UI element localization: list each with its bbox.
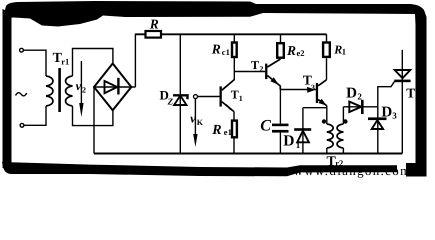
wire from top terminal — [24, 50, 46, 76]
wire T2 emitter to T3 base — [280, 89, 316, 91]
svg-text:D: D — [381, 104, 392, 120]
zener DZ symbol — [173, 95, 188, 99]
svg-text:R: R — [211, 42, 221, 57]
terminal vK — [194, 95, 198, 99]
frame border right — [416, 18, 427, 163]
frame border right bottom blob — [406, 163, 427, 177]
svg-text:e1: e1 — [224, 127, 232, 137]
svg-text:K: K — [197, 118, 204, 127]
thyristor T4 gate — [378, 81, 395, 107]
transistor T3 — [316, 83, 318, 103]
wire Re2 to rail — [280, 34, 282, 43]
svg-text:r1: r1 — [61, 56, 69, 66]
capacitor C — [279, 90, 281, 124]
svg-text:D: D — [283, 133, 294, 150]
transistor T1 — [220, 86, 222, 106]
frame border bottom — [2, 162, 397, 176]
wire bridge DC+ riser — [134, 34, 136, 87]
transformer Tr2 right winding — [337, 124, 343, 148]
svg-text:R: R — [211, 123, 221, 138]
wire from bottom terminal — [24, 106, 46, 125]
bridge rectifier diamond — [94, 64, 131, 111]
svg-text:2: 2 — [82, 85, 86, 94]
wire T1 emitter / Re1 — [233, 112, 235, 154]
wire bridge center line — [94, 86, 135, 88]
dot Tr2 left — [322, 119, 326, 123]
diode D2 — [349, 102, 361, 112]
wire T2 base — [234, 71, 265, 73]
transformer Tr1 primary winding — [46, 76, 53, 106]
wire top rail — [135, 33, 327, 35]
terminal input bottom — [20, 123, 24, 127]
svg-text:v: v — [190, 111, 196, 125]
wire T1 base — [198, 96, 220, 98]
transformer Tr2 left winding — [327, 124, 333, 148]
resistor R — [146, 31, 162, 38]
svg-text:D: D — [346, 86, 357, 102]
svg-text:R: R — [149, 16, 159, 31]
svg-text:T: T — [231, 88, 239, 102]
wire D2 net — [343, 106, 377, 108]
transistor T2 — [265, 64, 267, 80]
v2 arrow — [80, 61, 82, 103]
svg-text:1: 1 — [296, 140, 301, 150]
diode D1 — [302, 108, 304, 154]
svg-text:2: 2 — [357, 92, 362, 102]
resistor R1 — [323, 43, 330, 57]
svg-text:T: T — [406, 85, 415, 100]
svg-text:1: 1 — [342, 47, 346, 57]
vK arrow — [194, 99, 196, 135]
wire T1 collector / Rc1 — [233, 34, 235, 80]
svg-text:e2: e2 — [297, 48, 305, 58]
svg-text:Z: Z — [167, 96, 174, 106]
wire secondary bottom to bridge — [73, 106, 113, 126]
wire bottom rail — [94, 153, 402, 155]
zener DZ line — [179, 34, 181, 153]
transformer Tr1 secondary winding — [66, 76, 73, 106]
svg-text:3: 3 — [392, 110, 397, 120]
wire bridge DC- down — [93, 87, 95, 154]
wire secondary top to bridge — [73, 49, 113, 77]
frame border top — [3, 1, 427, 27]
svg-text:3: 3 — [311, 83, 315, 92]
svg-text:R: R — [286, 43, 296, 58]
resistor Rc1 — [232, 43, 237, 58]
thyristor T4 — [401, 50, 403, 154]
svg-text:c1: c1 — [222, 47, 230, 57]
svg-text:C: C — [260, 117, 271, 134]
svg-text:T: T — [251, 58, 259, 72]
resistor Re2 — [277, 43, 284, 58]
svg-text:1: 1 — [239, 94, 243, 103]
frame border left — [3, 9, 12, 168]
arrow on T3 base wire — [307, 87, 316, 93]
dot Tr2 right — [343, 119, 347, 123]
wire T3 emitter down — [326, 106, 328, 125]
wire D1 top — [303, 107, 327, 109]
svg-text:v: v — [76, 79, 82, 93]
diode D3 — [377, 107, 379, 154]
wire T3 collector / R1 — [326, 58, 328, 80]
terminal input top — [20, 48, 24, 52]
AC source tilde — [16, 93, 27, 96]
bridge diode — [105, 81, 118, 93]
resistor Re1 — [232, 121, 237, 138]
svg-text:2: 2 — [259, 65, 263, 74]
transformer Tr1 core — [58, 68, 61, 112]
